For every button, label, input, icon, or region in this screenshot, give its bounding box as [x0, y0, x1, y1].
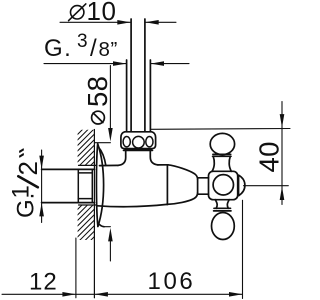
label 40 rotated: [254, 141, 285, 172]
svg-text:G.: G.: [44, 35, 72, 62]
label Ø58 rotated: [82, 76, 113, 107]
dimension Ø58 leader top: [95, 66, 110, 143]
label G.1/2" rotated: [8, 148, 44, 218]
svg-text:8: 8: [99, 38, 110, 61]
svg-text:2: 2: [13, 161, 43, 175]
fraction slash of G.1/2: [18, 176, 38, 187]
hub front circle: [213, 175, 233, 195]
wall face line: [93, 130, 95, 298]
dimension Ø58 leader bottom: [104, 227, 110, 261]
flange top curve into body: [98, 147, 106, 166]
inlet pipe G1/2 outer lines: [42, 169, 95, 202]
label 106: [148, 268, 196, 295]
dimension 40 vertical line with arrows: [281, 102, 283, 205]
label G.3/8": [44, 31, 118, 62]
svg-text:106: 106: [148, 268, 196, 295]
wall escutcheon flange lens: [96, 144, 103, 227]
handle top ball: [210, 133, 234, 154]
handle bottom ball: [212, 213, 235, 240]
valve body barrel top edge: [100, 164, 119, 166]
svg-text:1: 1: [8, 185, 35, 198]
handle top arm neck: [212, 154, 231, 171]
extension line 106 right: [242, 200, 244, 298]
compression nut: [121, 132, 156, 151]
thread section inside wall: [78, 169, 92, 202]
handle bottom arm neck: [214, 200, 231, 211]
handle hub: [209, 171, 238, 199]
stem neck between bell and hub: [198, 178, 209, 194]
svg-text:”: ”: [111, 38, 118, 61]
svg-text:40: 40: [254, 141, 285, 172]
svg-text:10: 10: [87, 0, 117, 26]
valve body neck shoulders below nut: [118, 150, 158, 165]
wire: G3/8 compression body outer lines: [127, 60, 151, 132]
label 12: [29, 269, 58, 296]
extension line from nut to 40-dim: [151, 128, 290, 131]
body/bonnet seam: [166, 165, 168, 205]
dimension Ø10 line with arrows: [60, 21, 176, 23]
flange bottom curve: [99, 224, 105, 227]
hub right cap dome: [238, 175, 240, 195]
dimension G1/2 vertical line with arrows: [41, 150, 43, 223]
wire: copper tube Ø10 vertical lines: [131, 19, 145, 132]
nut knurl circles: [123, 136, 153, 148]
extension line handle axis to 40-dim: [244, 185, 289, 187]
dimension G3/8 line with arrows: [44, 63, 189, 65]
label Ø10: [87, 0, 117, 26]
wall hole edges: [79, 165, 97, 205]
svg-text:58: 58: [82, 76, 113, 107]
svg-text:12: 12: [29, 269, 58, 296]
svg-text:/: /: [90, 35, 97, 62]
bonnet bell cone: [167, 165, 198, 205]
svg-text:3: 3: [77, 31, 88, 52]
valve body barrel bottom edge: [98, 204, 167, 206]
extension lines 12 below wall: [75, 238, 77, 298]
dimension 12/106 bottom line: [2, 293, 242, 295]
